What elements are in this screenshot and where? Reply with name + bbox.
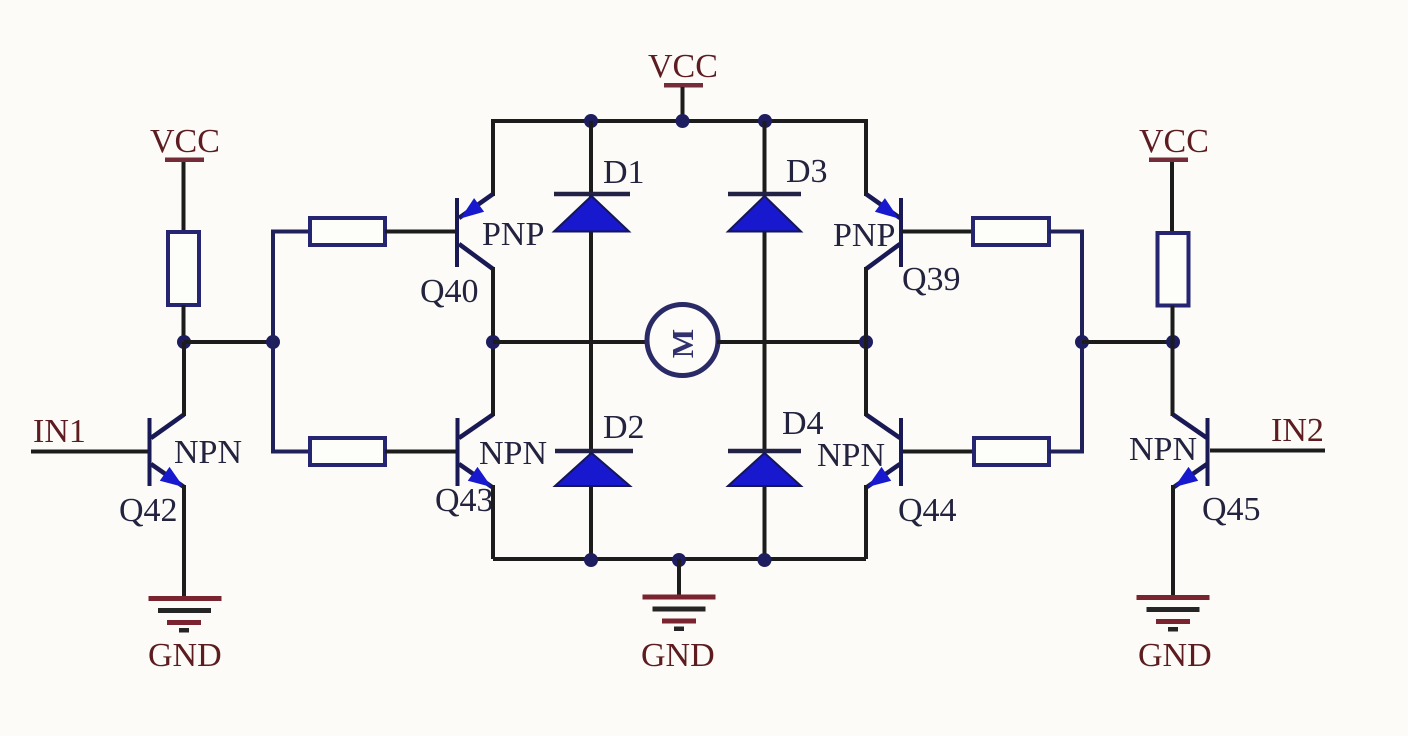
svg-text:GND: GND xyxy=(641,637,715,674)
power symbol VCC left xyxy=(165,158,204,163)
transistor Q44 emitter diagonal xyxy=(867,464,900,487)
label NPN for Q45 xyxy=(1129,431,1197,468)
junction dot top rail right xyxy=(758,114,772,128)
transistor Q44 collector diagonal xyxy=(866,415,900,439)
node C junction dot xyxy=(1166,335,1180,349)
wire Q45 base to IN2 xyxy=(1210,449,1325,453)
diode D1 triangle xyxy=(554,196,629,232)
transistor Q45 emitter arrow xyxy=(1175,467,1199,487)
svg-text:PNP: PNP xyxy=(482,216,544,253)
svg-text:NPN: NPN xyxy=(817,437,885,474)
wire R1 bottom to node A xyxy=(182,305,186,342)
transistor Q44 emitter arrow xyxy=(868,467,892,487)
wire Q39 base to R4 xyxy=(902,230,973,234)
diode D4 cathode bar xyxy=(728,449,801,454)
label Q43 xyxy=(435,482,494,519)
transistor Q43 emitter diagonal xyxy=(459,464,492,487)
power symbol VCC right xyxy=(1149,158,1188,163)
resistor R2 (upper left horizontal) xyxy=(310,218,385,245)
transistor Q45 collector diagonal xyxy=(1173,415,1207,439)
svg-text:Q45: Q45 xyxy=(1202,491,1261,528)
wire D3 D4 vertical xyxy=(763,121,767,559)
diode D4 triangle xyxy=(728,453,801,486)
node A junction dot xyxy=(177,335,191,349)
junction dot bottom rail center xyxy=(672,553,686,567)
transistor Q40 collector diagonal xyxy=(459,244,493,269)
svg-text:Q39: Q39 xyxy=(902,261,961,298)
svg-text:M: M xyxy=(665,329,700,358)
label PNP for Q39 xyxy=(833,217,895,254)
junction dot mid rail left xyxy=(486,335,500,349)
wire left column top xyxy=(491,119,495,196)
transistor Q39 base bar xyxy=(899,198,903,267)
wire IN1 to Q42 base xyxy=(31,450,148,454)
wire Q39 collector to mid rail xyxy=(864,267,868,342)
wire right riser vertical xyxy=(1080,232,1084,452)
junction dot top rail left xyxy=(584,114,598,128)
ground symbol left xyxy=(149,596,222,633)
node GND right label xyxy=(1138,637,1212,674)
junction dot right riser xyxy=(1075,335,1089,349)
wire VCC right stem xyxy=(1170,162,1174,234)
label D2 xyxy=(603,409,645,446)
svg-text:VCC: VCC xyxy=(150,123,220,160)
svg-text:D3: D3 xyxy=(786,153,828,190)
wire Q44 collector to mid rail xyxy=(864,342,868,416)
transistor Q45 emitter diagonal xyxy=(1174,464,1207,487)
diode D2 triangle xyxy=(555,453,630,486)
node VCC left label xyxy=(150,123,220,160)
wire node A to node B xyxy=(184,340,273,344)
transistor Q40 base bar xyxy=(455,198,459,267)
junction dot top rail center xyxy=(676,114,690,128)
transistor Q43 base bar xyxy=(456,418,460,486)
wire VCC top stem xyxy=(681,87,685,121)
wire riser to node C xyxy=(1082,340,1173,344)
wire top rail xyxy=(493,119,866,123)
label D1 xyxy=(603,154,645,191)
label Q40 xyxy=(420,273,479,310)
svg-text:NPN: NPN xyxy=(174,434,242,471)
node GND left label xyxy=(148,637,222,674)
svg-text:GND: GND xyxy=(1138,637,1212,674)
diode D1 cathode bar xyxy=(554,192,630,197)
svg-text:GND: GND xyxy=(148,637,222,674)
svg-text:D1: D1 xyxy=(603,154,645,191)
wire node B vertical riser xyxy=(271,232,275,452)
svg-text:NPN: NPN xyxy=(479,435,547,472)
wire Q45 emitter to GND xyxy=(1171,485,1175,597)
transistor Q39 emitter diagonal xyxy=(866,194,900,218)
wire R5 to right riser xyxy=(1049,450,1084,454)
label Q44 xyxy=(898,492,957,529)
label NPN for Q42 xyxy=(174,434,242,471)
resistor R5 (lower right horizontal) xyxy=(974,438,1049,465)
transistor Q40 emitter diagonal xyxy=(459,194,493,218)
resistor R6 (right vertical) xyxy=(1158,233,1189,306)
junction dot bottom rail left xyxy=(584,553,598,567)
svg-text:Q42: Q42 xyxy=(119,492,178,529)
wire R2 to Q40 base xyxy=(385,230,457,234)
transistor Q45 base bar xyxy=(1206,418,1210,486)
label NPN for Q43 xyxy=(479,435,547,472)
diode D3 triangle xyxy=(728,196,801,232)
wire Q44 emitter to bottom rail xyxy=(864,485,868,559)
ground symbol right xyxy=(1137,595,1210,632)
label PNP for Q40 xyxy=(482,216,544,253)
wire Q44 base to R5 xyxy=(903,450,974,454)
svg-text:Q44: Q44 xyxy=(898,492,957,529)
wire Q43 collector to mid rail xyxy=(491,342,495,416)
power symbol VCC top xyxy=(664,83,703,88)
svg-text:VCC: VCC xyxy=(648,48,718,85)
transistor Q40 emitter arrow xyxy=(461,198,485,218)
wire bottom rail xyxy=(493,557,866,561)
label NPN for Q44 xyxy=(817,437,885,474)
wire mid rail right xyxy=(717,340,866,344)
svg-text:VCC: VCC xyxy=(1139,123,1209,160)
wire VCC left stem xyxy=(182,162,186,233)
resistor R4 (upper right horizontal) xyxy=(973,218,1049,245)
svg-text:IN1: IN1 xyxy=(33,413,86,450)
svg-text:IN2: IN2 xyxy=(1271,412,1324,449)
wire mid rail left xyxy=(493,340,648,344)
transistor Q43 collector diagonal xyxy=(459,415,493,439)
transistor Q42 emitter diagonal xyxy=(151,464,184,487)
wire D1 D2 vertical xyxy=(589,121,593,559)
svg-text:PNP: PNP xyxy=(833,217,895,254)
transistor Q39 emitter arrow xyxy=(875,198,899,218)
label D4 xyxy=(782,405,824,442)
transistor Q42 emitter arrow xyxy=(160,467,184,487)
resistor R1 (left vertical) xyxy=(168,232,199,305)
ground symbol center xyxy=(643,595,716,632)
transistor Q42 base bar xyxy=(148,418,152,486)
wire R6 bottom to node C xyxy=(1171,306,1175,343)
motor M circle xyxy=(647,305,718,376)
junction dot bottom rail right xyxy=(758,553,772,567)
node VCC right label xyxy=(1139,123,1209,160)
wire Q42 collector to node A xyxy=(182,342,186,416)
node IN2 label xyxy=(1271,412,1324,449)
wire Q40 collector to mid rail xyxy=(491,267,495,342)
svg-text:Q43: Q43 xyxy=(435,482,494,519)
junction dot mid rail right xyxy=(859,335,873,349)
node VCC top label xyxy=(648,48,718,85)
node B junction dot xyxy=(266,335,280,349)
diode D3 cathode bar xyxy=(728,192,801,197)
wire Q45 collector to node C xyxy=(1171,342,1175,416)
label Q39 xyxy=(902,261,961,298)
wire Q42 emitter to GND xyxy=(182,485,186,598)
node GND center label xyxy=(641,637,715,674)
node IN1 label xyxy=(33,413,86,450)
wire GND center stem xyxy=(677,559,681,596)
transistor Q42 collector diagonal xyxy=(151,415,184,439)
label D3 xyxy=(786,153,828,190)
label Q45 xyxy=(1202,491,1261,528)
wire right column top xyxy=(864,119,868,196)
wire riser to R3 xyxy=(271,450,310,454)
wire Q43 emitter to bottom rail xyxy=(491,485,495,559)
wire R4 to right riser xyxy=(1049,230,1084,234)
transistor Q39 collector diagonal xyxy=(866,244,900,269)
diode D2 cathode bar xyxy=(555,449,633,454)
svg-text:Q40: Q40 xyxy=(420,273,479,310)
svg-text:NPN: NPN xyxy=(1129,431,1197,468)
resistor R3 (lower left horizontal) xyxy=(310,438,385,465)
label Q42 xyxy=(119,492,178,529)
svg-text:D2: D2 xyxy=(603,409,645,446)
wire R3 to Q43 base xyxy=(385,450,457,454)
transistor Q44 base bar xyxy=(899,418,903,486)
transistor Q43 emitter arrow xyxy=(468,467,492,487)
motor M letter xyxy=(665,329,700,358)
wire riser to R2 xyxy=(271,230,310,234)
